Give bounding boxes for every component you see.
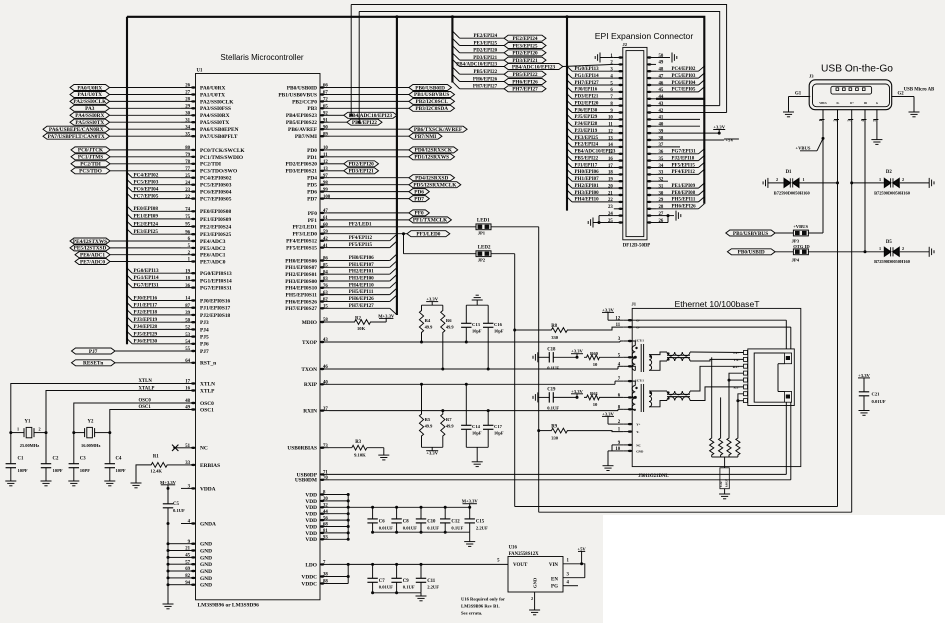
svg-text:PJ1/EPI17: PJ1/EPI17 <box>134 303 158 309</box>
vertical bus to top-center cascade (thick) <box>451 17 453 83</box>
svg-text:49.9: 49.9 <box>425 325 433 330</box>
svg-text:PA5/SSI0TX: PA5/SSI0TX <box>200 120 229 126</box>
svg-text:C18: C18 <box>547 347 556 352</box>
svg-text:PB3/I2C0SDA: PB3/I2C0SDA <box>415 106 448 112</box>
svg-text:RX+: RX+ <box>733 365 740 369</box>
capacitor C8 0.01UF <box>395 506 398 509</box>
wire <box>115 350 181 352</box>
svg-text:1: 1 <box>879 246 881 251</box>
svg-text:0.1UF: 0.1UF <box>403 585 415 590</box>
net flag PF0 <box>409 210 429 216</box>
svg-text:PC0/JTCK: PC0/JTCK <box>78 148 104 154</box>
svg-text:PD2/EPI20: PD2/EPI20 <box>575 101 599 106</box>
svg-text:39: 39 <box>185 311 190 316</box>
J2 pin 31 <box>647 187 656 189</box>
svg-text:VDD: VDD <box>305 492 317 498</box>
svg-text:98: 98 <box>323 181 328 186</box>
svg-text:RXIP: RXIP <box>304 382 318 388</box>
J2 pin 48 <box>647 70 656 72</box>
U1 pin 60 PF2/LED1 <box>320 226 329 228</box>
svg-text:35: 35 <box>659 157 664 162</box>
svg-text:PG7/EPI31: PG7/EPI31 <box>134 282 159 288</box>
net flag PA7/USBPFLT/CAN0TX <box>43 133 110 139</box>
svg-text:30: 30 <box>659 191 664 196</box>
wire cascade PB4 flag to EPI pin2 <box>563 64 614 66</box>
svg-text:LED1: LED1 <box>477 218 490 223</box>
svg-text:PH5/EPI11: PH5/EPI11 <box>672 198 696 203</box>
J1 pin 5 <box>623 356 632 358</box>
net flag PB2/I2C0SCL <box>409 98 455 104</box>
svg-text:PE0/EPI0S08: PE0/EPI0S08 <box>200 209 231 215</box>
svg-text:PB4/ADC10/EPI23: PB4/ADC10/EPI23 <box>512 64 556 70</box>
svg-text:PC7/EPI05: PC7/EPI05 <box>672 88 696 93</box>
wire PD1/I2SRXWS <box>329 156 409 158</box>
svg-text:25: 25 <box>185 174 190 179</box>
svg-text:VDD: VDD <box>305 499 317 505</box>
svg-text:PH7/EPI27: PH7/EPI27 <box>473 85 498 90</box>
svg-text:PH5/EPI0S11: PH5/EPI0S11 <box>286 293 318 299</box>
U1 pin 53 PJ5 <box>181 336 196 338</box>
svg-text:330: 330 <box>551 435 559 440</box>
svg-text:PE1/EPI0S09: PE1/EPI0S09 <box>200 217 231 223</box>
J2 pin 21 <box>614 194 623 196</box>
U1 pin 55 PJ7 <box>181 350 196 352</box>
net flag PB7/NMI <box>409 133 442 139</box>
svg-text:GND: GND <box>636 449 644 453</box>
EPI left bus tap PH3/EPI00 <box>567 190 572 195</box>
J2 pin 9 <box>614 112 623 114</box>
svg-text:XTLP: XTLP <box>200 388 215 394</box>
LDO cap bank ground <box>373 592 421 594</box>
J2 pin 20 <box>614 187 623 189</box>
EPI pin37 stub wire <box>656 146 680 148</box>
svg-text:75: 75 <box>185 215 190 220</box>
capacitor C12 0.1UF <box>444 506 447 509</box>
U1 pin 78 PC2/TDI <box>181 163 196 165</box>
J2 pin 46 <box>647 84 656 86</box>
EPI left bus tap PJ0/EPI16 <box>567 87 572 92</box>
C19 AC-coupling network <box>537 392 539 402</box>
svg-text:PE4/ADC3: PE4/ADC3 <box>200 239 226 245</box>
VDD rail to cap bank <box>348 506 470 508</box>
G2 stub and ground <box>892 96 914 98</box>
wire PB7/NMI <box>329 135 409 137</box>
svg-text:PD1: PD1 <box>307 155 317 161</box>
svg-text:PJ6/EPI30: PJ6/EPI30 <box>575 108 598 113</box>
svg-text:330: 330 <box>551 335 559 340</box>
U1 pin 54 PJ6 <box>181 343 196 345</box>
J1 pin 10 <box>623 450 632 452</box>
svg-text:PH7/EPI27: PH7/EPI27 <box>512 87 538 93</box>
mid net flag PB5/EPI22 <box>329 121 347 123</box>
J2 pin 45 <box>647 91 656 93</box>
svg-text:PG0/EPI13: PG0/EPI13 <box>134 268 159 274</box>
wire+tap PH5/EPI11 <box>329 294 390 296</box>
svg-text:55: 55 <box>185 347 190 352</box>
U1 pin 96 PE3/EPI0S25 <box>181 233 196 235</box>
J2 pin 36 <box>647 153 656 155</box>
svg-text:26: 26 <box>185 84 190 89</box>
svg-text:74: 74 <box>185 208 190 213</box>
U1 pin 82 GND <box>181 577 196 579</box>
svg-text:PC3/TDO/SWO: PC3/TDO/SWO <box>200 169 237 175</box>
C18 AC-coupling network <box>537 352 539 362</box>
svg-text:PF5/EPI15: PF5/EPI15 <box>349 243 373 248</box>
U1 pin 12 PD2/EPI0S20 <box>320 163 329 165</box>
J2 pin 4 <box>614 77 623 79</box>
U1 pin 18 PG1/EPI0S14 <box>181 279 196 281</box>
svg-text:PD3/EPI21: PD3/EPI21 <box>348 169 374 175</box>
U1 pin 56 VDD <box>320 519 329 521</box>
U1 pin 11 PD1 <box>320 156 329 158</box>
J1 pin 4 <box>623 365 632 367</box>
svg-text:PF0: PF0 <box>308 211 318 217</box>
EPI left bus tap PB4/ADC10/EPI23 <box>567 149 572 154</box>
svg-text:JP4: JP4 <box>792 258 800 263</box>
U1 pin 71 USB0DP <box>320 473 329 475</box>
capacitor C10 0.1UF <box>420 506 423 509</box>
svg-text:PD6: PD6 <box>414 189 424 195</box>
svg-text:Y2: Y2 <box>88 420 94 425</box>
svg-text:91: 91 <box>323 119 328 124</box>
svg-text:PH2/EPI0S01: PH2/EPI0S01 <box>285 272 317 278</box>
bus tap PJ3/EPI19 <box>127 317 132 322</box>
USB0DM wire to USB connector <box>329 479 791 481</box>
U1 pin 86 PH0/EPI0S06 <box>320 260 329 262</box>
EPI left bus tap PE3/EPI25 <box>567 135 572 140</box>
wire+tap PH3/EPI00 <box>329 280 390 282</box>
svg-text:PF4/EPI12: PF4/EPI12 <box>672 170 696 175</box>
svg-text:VDD: VDD <box>305 512 317 518</box>
svg-text:PH3/EPI00: PH3/EPI00 <box>575 191 600 196</box>
svg-text:PD3/EPI0S21: PD3/EPI0S21 <box>286 169 318 175</box>
svg-text:PH4/EPI10: PH4/EPI10 <box>349 282 374 288</box>
svg-text:16: 16 <box>185 387 190 392</box>
J2 pin 6 <box>614 91 623 93</box>
svg-text:40: 40 <box>659 123 664 128</box>
svg-text:31: 31 <box>185 119 190 124</box>
bus tap PE3/EPI25 <box>127 229 132 234</box>
svg-text:27: 27 <box>659 212 664 217</box>
svg-text:PC1/JTMS: PC1/JTMS <box>78 155 103 161</box>
U1 pin 27 PA1/U0TX <box>181 94 196 96</box>
U1 pin 48 OSC0 <box>181 402 196 404</box>
svg-text:PE5/I2STXSD: PE5/I2STXSD <box>74 246 107 252</box>
svg-text:PA3/SSI0FSS: PA3/SSI0FSS <box>200 106 231 112</box>
svg-text:C21: C21 <box>872 392 881 397</box>
svg-text:PJ6/EPI30: PJ6/EPI30 <box>134 339 158 345</box>
wire PB0/USB0ID <box>329 87 409 89</box>
svg-text:59: 59 <box>323 230 328 235</box>
svg-text:90: 90 <box>323 125 328 130</box>
svg-text:NC: NC <box>636 443 641 447</box>
svg-text:12.4K: 12.4K <box>150 468 162 473</box>
TX choke <box>667 352 690 356</box>
U1 pin 91 PB5/EPI0S22 <box>320 121 329 123</box>
svg-text:EPI Expansion Connector: EPI Expansion Connector <box>595 31 694 41</box>
svg-text:C13: C13 <box>472 322 481 327</box>
J2 pin 8 <box>614 105 623 107</box>
svg-text:PH3/EPI0S00: PH3/EPI0S00 <box>285 279 317 285</box>
EPI right bus tap PH5/EPI11 <box>656 201 699 203</box>
svg-text:MDIO: MDIO <box>302 320 317 326</box>
wire+tap PH1/EPI07 <box>329 266 390 268</box>
svg-text:PJ4/EPI28: PJ4/EPI28 <box>575 122 598 127</box>
svg-text:PD7: PD7 <box>414 196 424 202</box>
svg-text:18: 18 <box>185 277 190 282</box>
svg-text:0.1UF: 0.1UF <box>173 508 185 513</box>
wire PB1/USBVBUS <box>329 94 409 96</box>
EPI left bus tap PG1/EPI14 <box>567 73 572 78</box>
svg-text:PE3/EPI25: PE3/EPI25 <box>512 43 537 49</box>
svg-text:PG1/EPI14: PG1/EPI14 <box>134 275 159 281</box>
choke outputs to RJ45 pins <box>690 351 744 354</box>
net flag RESETn <box>72 360 116 366</box>
net flag PD5/I2SRXMCLK <box>409 182 461 188</box>
wire <box>110 100 182 102</box>
svg-text:14: 14 <box>185 297 190 302</box>
wire PB3/I2C0SDA <box>329 107 409 109</box>
svg-text:USB0DM: USB0DM <box>295 478 317 484</box>
svg-text:PJ2/EPI18: PJ2/EPI18 <box>672 156 695 161</box>
svg-text:66: 66 <box>323 84 328 89</box>
C14 C17 10pF caps <box>465 384 467 425</box>
U1 pin 28 PA2/SSI0CLK <box>181 100 196 102</box>
U1 pin 97 PD4 <box>320 177 329 179</box>
vertical from top bus to PB5 row <box>358 12 360 123</box>
svg-text:PE7/ADC0: PE7/ADC0 <box>80 259 105 265</box>
J1 pin 6 <box>623 396 632 398</box>
svg-text:28: 28 <box>185 98 190 103</box>
svg-text:93: 93 <box>323 536 328 541</box>
RX choke <box>667 391 690 395</box>
svg-text:78: 78 <box>185 160 190 165</box>
U1 pin 15 PH7/EPI0S27 <box>320 307 329 309</box>
EPI left bus tap PH0/EPI06 <box>567 169 572 174</box>
svg-text:36: 36 <box>659 150 664 155</box>
cascade net flag PD3/EPI21 <box>504 57 546 63</box>
wire <box>110 156 181 158</box>
svg-text:Stellaris Microcontroller: Stellaris Microcontroller <box>220 53 303 62</box>
capacitor C2 10PF <box>45 433 47 464</box>
EPI right bus tap PC5/EPI03 <box>656 77 699 79</box>
svg-text:31: 31 <box>659 184 664 189</box>
mid net flag PD2/EPI20 <box>329 163 344 165</box>
svg-text:PE3/EPI0S25: PE3/EPI0S25 <box>200 232 231 238</box>
svg-text:+3.3V: +3.3V <box>858 373 870 378</box>
U1 pin 20 VDD <box>320 500 329 502</box>
svg-text:TX+: TX+ <box>733 351 740 355</box>
J2 pin 2 <box>614 63 623 65</box>
net flag PB1/USBVBUS <box>409 92 455 98</box>
svg-text:71: 71 <box>323 471 328 476</box>
svg-text:TXOP: TXOP <box>302 340 318 346</box>
svg-text:PJ3: PJ3 <box>200 320 209 326</box>
J2 pin 19 <box>614 180 623 182</box>
svg-text:PC6/EPI04: PC6/EPI04 <box>134 186 159 192</box>
net flag PA2/SSI0CLK <box>70 98 110 104</box>
svg-text:21: 21 <box>608 191 613 196</box>
U1 pin 83 PH3/EPI0S00 <box>320 280 329 282</box>
svg-text:2.2UF: 2.2UF <box>427 585 439 590</box>
resistor R2 10K MDIO pullup <box>329 321 353 323</box>
svg-text:PH1/EPI07: PH1/EPI07 <box>349 262 374 268</box>
svg-text:24: 24 <box>185 181 190 186</box>
U1 pin 94 GND <box>181 584 196 586</box>
svg-text:22: 22 <box>608 198 613 203</box>
U1 pin 50 PJ3 <box>181 321 196 323</box>
net flag PB0/USBID <box>727 249 775 255</box>
svg-text:PC4/EPI0S02: PC4/EPI0S02 <box>200 176 232 182</box>
svg-text:PC4/EPI02: PC4/EPI02 <box>134 173 159 179</box>
svg-text:PH6/EPI0S26: PH6/EPI0S26 <box>285 299 317 305</box>
svg-text:PE1/EPI09: PE1/EPI09 <box>672 184 696 189</box>
svg-text:32: 32 <box>659 178 664 183</box>
svg-text:PH7/EPI0S27: PH7/EPI0S27 <box>285 306 317 312</box>
svg-text:Ethernet 10/100baseT: Ethernet 10/100baseT <box>674 299 760 309</box>
TXOP wire row to J1 pin3 <box>329 341 620 343</box>
U1 pin 35 PA7/USB0PFLT <box>181 135 196 137</box>
svg-text:PE6/ADC1: PE6/ADC1 <box>80 253 105 259</box>
J2 pin 47 <box>647 77 656 79</box>
J2 pin 39 <box>647 132 656 134</box>
svg-text:PJ2/EPI18: PJ2/EPI18 <box>134 310 158 316</box>
svg-text:C15: C15 <box>476 520 485 525</box>
svg-text:GND: GND <box>533 577 538 588</box>
svg-text:25: 25 <box>608 219 613 224</box>
wire <box>110 247 181 249</box>
J1 pin 12 <box>623 319 632 321</box>
U1 pin 62 PH6/EPI0S26 <box>320 301 329 303</box>
EPI right bus tap PC7/EPI05 <box>656 91 699 93</box>
J2 pin 42 <box>647 112 656 114</box>
lower crossing wire to USB D+ <box>539 511 852 513</box>
svg-text:PC7/EPI0S05: PC7/EPI0S05 <box>200 197 232 203</box>
svg-text:44: 44 <box>323 510 328 515</box>
J1 pin 11 <box>623 326 632 328</box>
J2 pin 1 <box>614 57 623 59</box>
U1 pin 49 OSC1 <box>181 409 196 411</box>
wire <box>110 107 182 109</box>
U1 pin 90 PB6/AVREF <box>320 128 329 130</box>
svg-text:PJ3/EPI19: PJ3/EPI19 <box>134 317 158 323</box>
bob smith termination wires <box>729 373 744 436</box>
svg-text:Y1: Y1 <box>25 420 31 425</box>
svg-text:PH7/EPI27: PH7/EPI27 <box>349 303 374 309</box>
svg-text:PJ7: PJ7 <box>89 349 98 355</box>
svg-text:PH4/EPI10: PH4/EPI10 <box>575 198 600 203</box>
net flag PB3/I2C0SDA <box>409 105 455 111</box>
net flag PA0/U0RX <box>70 85 110 91</box>
J2 pin 27 <box>647 215 656 217</box>
J1 pin 8 <box>623 408 632 410</box>
U1 pin 38 VDDC <box>320 576 329 578</box>
svg-text:C12: C12 <box>451 520 460 525</box>
capacitor C4 10PF <box>109 433 111 464</box>
U1 pin 1 PE7/ADC0 <box>181 261 196 263</box>
J1 pin 3 <box>623 340 632 342</box>
svg-text:PH7/EPI27: PH7/EPI27 <box>575 81 600 86</box>
wire+tap PH4/EPI10 <box>329 287 390 289</box>
svg-text:D1: D1 <box>786 170 792 175</box>
svg-text:C7: C7 <box>379 579 385 584</box>
svg-text:81: 81 <box>323 529 328 534</box>
wire LED2 to ethernet R8 via vertical <box>491 253 515 255</box>
svg-text:C19: C19 <box>547 387 556 392</box>
U1 pin 47 PF0 <box>320 212 329 214</box>
svg-text:1: 1 <box>879 177 881 182</box>
svg-text:PE2/EPI24: PE2/EPI24 <box>473 34 497 39</box>
svg-text:PA1/U0TX: PA1/U0TX <box>200 92 225 98</box>
U1 pin 5 PE5/ADC2 <box>181 247 196 249</box>
capacitor C7 0.01UF <box>371 563 374 566</box>
svg-text:0.1UF: 0.1UF <box>451 525 463 530</box>
svg-text:PG1/EPI14: PG1/EPI14 <box>575 74 600 79</box>
J2 pin 13 <box>614 139 623 141</box>
EPI left bus tap PH7/EPI27 <box>567 80 572 85</box>
svg-text:PJ2/EPI0S18: PJ2/EPI0S18 <box>200 313 231 319</box>
svg-text:PD5: PD5 <box>307 183 317 189</box>
J2 pin 16 <box>614 160 623 162</box>
svg-text:2: 2 <box>902 246 904 251</box>
svg-text:J1: J1 <box>632 302 637 307</box>
svg-text:U16 Required only for: U16 Required only for <box>461 597 505 602</box>
U1 pin 30 PA4/SSI0RX <box>181 114 196 116</box>
svg-text:PF2/LED1: PF2/LED1 <box>349 222 372 227</box>
wire PB2/I2C0SCL <box>329 100 409 102</box>
svg-text:56: 56 <box>323 516 328 521</box>
svg-text:PG7/EPI31: PG7/EPI31 <box>672 150 697 155</box>
J2 pin 34 <box>647 167 656 169</box>
svg-text:PA2/SSI0CLK: PA2/SSI0CLK <box>73 99 107 105</box>
svg-text:See errata.: See errata. <box>461 611 482 616</box>
cascade tap PD3/EPI21 <box>452 53 459 60</box>
svg-text:PA0/U0RX: PA0/U0RX <box>77 85 102 91</box>
svg-text:VOUT: VOUT <box>513 563 528 568</box>
svg-text:C17: C17 <box>494 424 503 429</box>
svg-text:10pF: 10pF <box>494 329 504 334</box>
svg-text:0.01UF: 0.01UF <box>403 525 417 530</box>
svg-text:28: 28 <box>659 205 664 210</box>
svg-text:62: 62 <box>323 298 328 303</box>
svg-text:VDD: VDD <box>305 531 317 537</box>
top bus wire EPI43 (middle) <box>359 12 720 106</box>
U1 pin 31 PA5/SSI0TX <box>181 121 196 123</box>
svg-text:30: 30 <box>185 112 190 117</box>
svg-text:PJ6: PJ6 <box>200 342 209 348</box>
svg-text:PB0/USB0ID: PB0/USB0ID <box>415 85 445 91</box>
svg-text:10: 10 <box>593 402 598 407</box>
EPI left bus tap PJ3/EPI19 <box>567 128 572 133</box>
wire PB6/TXSCK/AVREF <box>329 128 409 130</box>
J2 pin 7 <box>614 98 623 100</box>
svg-text:13: 13 <box>323 167 328 172</box>
svg-text:PD3/EPI21: PD3/EPI21 <box>575 95 599 100</box>
wire PF0 <box>329 212 409 214</box>
white page margin bottom-right <box>603 515 945 623</box>
svg-text:+3.3V: +3.3V <box>713 125 725 130</box>
svg-text:PC6/EPI0S04: PC6/EPI0S04 <box>200 190 232 196</box>
svg-text:R61: R61 <box>590 391 599 396</box>
svg-text:43: 43 <box>323 338 328 343</box>
svg-text:39: 39 <box>659 129 664 134</box>
svg-text:C14: C14 <box>472 424 481 429</box>
svg-text:80: 80 <box>185 146 190 151</box>
svg-text:49.9: 49.9 <box>425 424 433 429</box>
svg-text:PB5/EPI22: PB5/EPI22 <box>352 120 377 126</box>
svg-text:GND: GND <box>200 569 212 575</box>
J2 pin 3 <box>614 70 623 72</box>
